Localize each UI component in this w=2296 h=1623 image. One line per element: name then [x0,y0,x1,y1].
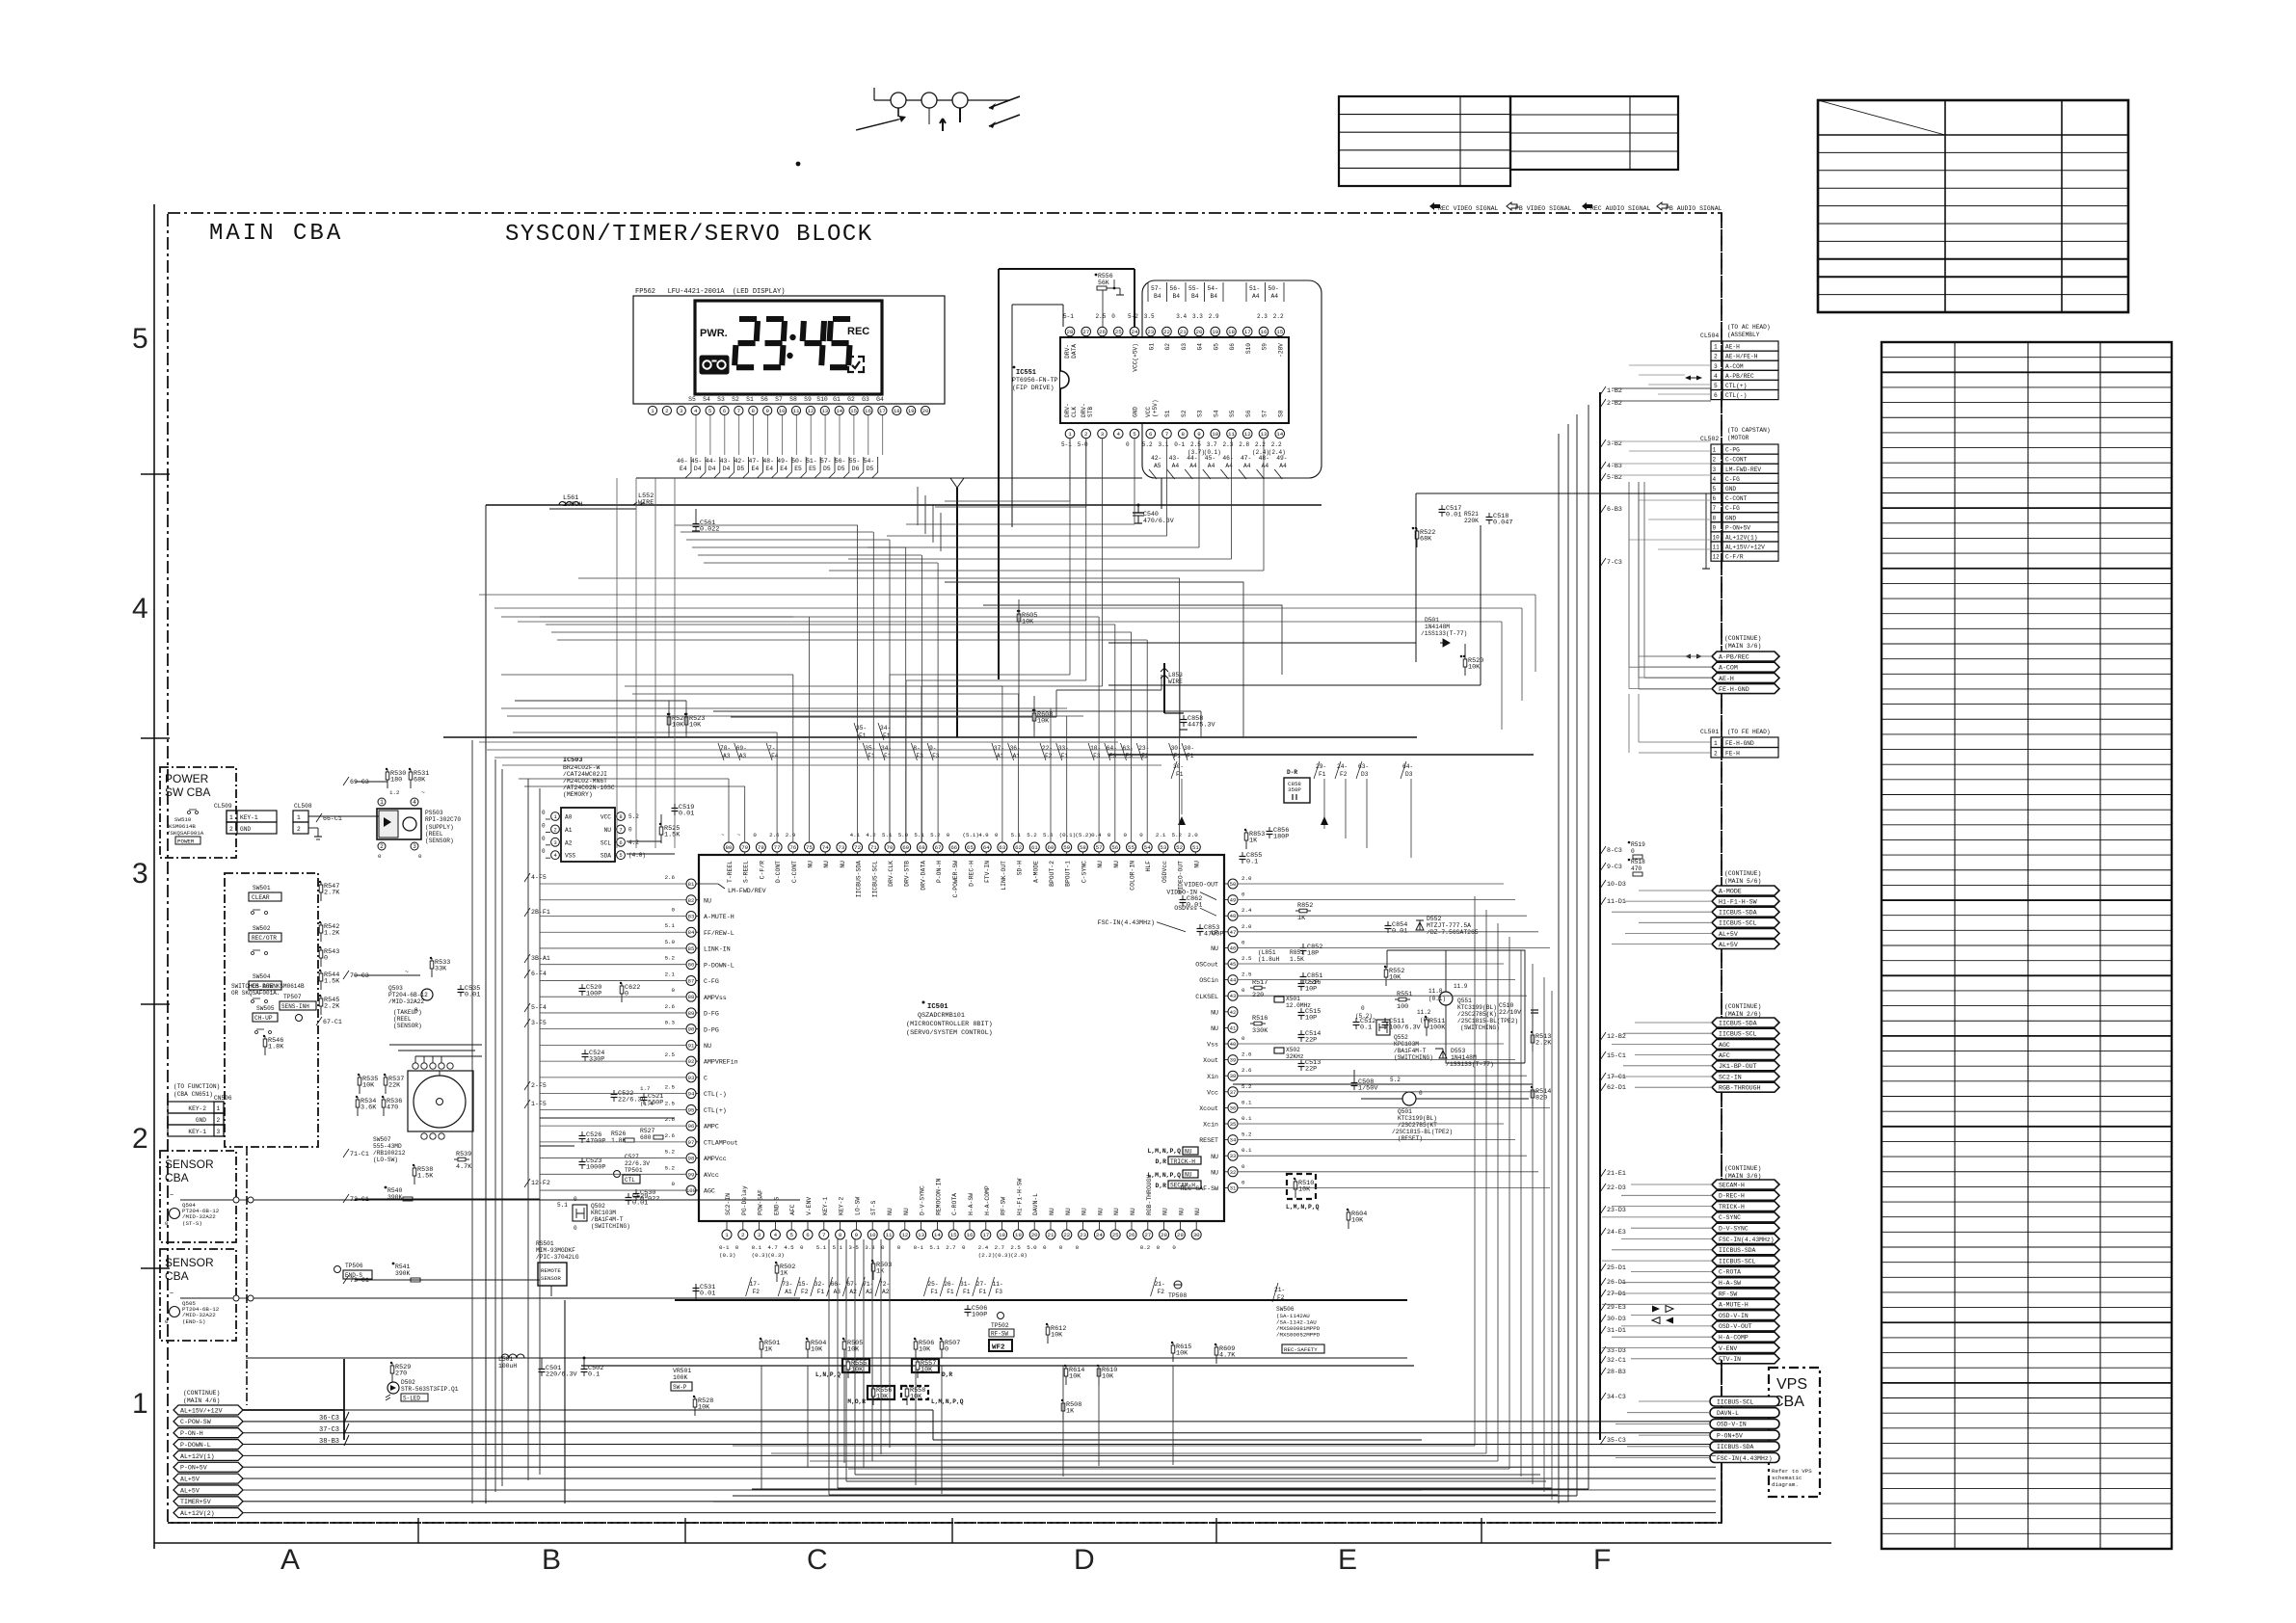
inductor L561 symbol [559,502,579,506]
tag stack main 5/6 [1712,886,1779,895]
wire memory bus [627,840,661,842]
svg-text:7: 7 [737,408,741,414]
svg-text:QSZADCRMB101: QSZADCRMB101 [918,1012,965,1020]
svg-text:80: 80 [726,844,733,851]
svg-text:7: 7 [822,1232,826,1238]
wire verticals mid column [917,487,919,525]
svg-text:DRV-: DRV- [1064,344,1071,359]
svg-text:55-: 55- [1188,285,1199,292]
flag 72-C1 [343,1194,349,1203]
svg-text:65: 65 [967,844,974,851]
svg-text:10K: 10K [1468,664,1481,672]
svg-text:T-REEL: T-REEL [727,861,734,883]
svg-text:25-: 25- [927,1281,938,1288]
svg-text:22P: 22P [1305,1037,1317,1045]
resistor R530 [387,769,388,788]
svg-text:8-: 8- [913,745,920,752]
svg-text:G3: G3 [1181,343,1188,351]
svg-text:G6: G6 [1229,343,1236,351]
svg-text:AMPVss: AMPVss [704,995,727,1001]
svg-text:F4: F4 [771,753,779,759]
svg-text:0: 0 [881,1244,885,1251]
svg-text:1.8K: 1.8K [611,1137,627,1144]
svg-text:X501: X501 [1286,996,1300,1002]
svg-text:1K: 1K [764,1346,773,1354]
svg-text:TP507: TP507 [283,994,302,1000]
svg-text:NU: NU [704,897,711,904]
svg-text:~: ~ [737,832,741,838]
svg-text:0.1: 0.1 [1241,1099,1252,1105]
svg-text:22/10V: 22/10V [1499,1009,1521,1016]
svg-text:G2: G2 [1164,343,1171,351]
svg-text:0: 0 [1241,1163,1245,1170]
svg-text:2.6: 2.6 [1241,1067,1252,1074]
audio tag stack [1712,652,1779,661]
svg-text:F1: F1 [1061,753,1069,759]
svg-text:NU: NU [1211,1154,1218,1160]
svg-text:RGB-THROUGH: RGB-THROUGH [1146,1175,1153,1215]
svg-text:62-D1: 62-D1 [1607,1084,1626,1091]
svg-text:F3: F3 [1093,753,1101,759]
svg-text:NU: NU [1130,1208,1136,1215]
svg-text:0.3: 0.3 [665,1020,676,1026]
connector CL502 [1711,444,1722,454]
svg-text:(MOTOR: (MOTOR [1727,435,1749,441]
svg-text:26: 26 [1129,1232,1135,1238]
svg-text:1.2K: 1.2K [324,930,340,938]
svg-text:11: 11 [1713,545,1721,551]
svg-text:C-CONT: C-CONT [1725,495,1748,502]
svg-text:R517: R517 [1252,979,1268,987]
svg-text:A-PB/REC: A-PB/REC [1725,373,1754,380]
svg-text:46-: 46- [1222,455,1233,462]
svg-text:/MID-32A22: /MID-32A22 [182,1213,216,1220]
svg-text:IICBUS-SDA: IICBUS-SDA [1719,1247,1756,1254]
svg-text:34-: 34- [881,745,892,752]
svg-text:SENS-INH: SENS-INH [281,1003,309,1010]
wires bus to CL502 [1612,441,1711,549]
svg-text:~: ~ [170,1192,174,1200]
svg-text:29-E3: 29-E3 [1607,1304,1626,1311]
svg-text:99: 99 [688,1171,695,1178]
svg-text:21: 21 [1180,329,1187,335]
IC501 top pins [724,842,734,852]
svg-text:0.1: 0.1 [1241,1115,1252,1122]
svg-text:DATA: DATA [1071,344,1078,359]
svg-text:100K: 100K [1429,1024,1446,1032]
svg-text:AVcc: AVcc [704,1172,719,1179]
svg-text:26-: 26- [944,1281,954,1288]
svg-text:470: 470 [387,1104,398,1112]
svg-text:5-1: 5-1 [1061,441,1072,448]
svg-text:1.5K: 1.5K [324,978,340,986]
svg-text:SW-P: SW-P [673,1384,687,1391]
svg-text:3.1: 3.1 [1159,441,1169,448]
svg-text:42-: 42- [1151,455,1161,462]
svg-text:0: 0 [1631,848,1635,855]
svg-text:S7: S7 [1262,410,1268,417]
svg-text:RF-SW: RF-SW [1001,1197,1007,1215]
capacitor C622 [621,983,623,1002]
svg-text:6: 6 [1149,431,1153,438]
resistor R520 [1464,656,1466,676]
svg-text:S1: S1 [1164,410,1171,417]
svg-text:2.5: 2.5 [1190,441,1201,448]
transistor Q502 digital [573,1205,587,1221]
svg-text:6: 6 [723,408,727,414]
svg-text:98: 98 [688,1156,695,1162]
svg-text:23-D3: 23-D3 [1607,1207,1626,1213]
svg-text:5-2: 5-2 [1128,313,1138,320]
svg-text:2.9: 2.9 [786,832,796,838]
svg-text:SW CBA: SW CBA [165,785,210,799]
svg-text:FSC-IN(4.43MHz): FSC-IN(4.43MHz) [1719,1237,1775,1243]
svg-text:10K: 10K [847,1346,860,1354]
svg-text:2: 2 [217,1117,221,1124]
svg-text:23: 23 [1080,1232,1086,1238]
svg-text:2: 2 [741,1232,745,1238]
svg-text:2: 2 [665,408,669,414]
svg-text:43: 43 [1230,993,1237,999]
svg-text:88: 88 [688,994,695,1000]
svg-text:R541: R541 [395,1264,411,1270]
svg-text:FSC-IN(4.43MHz): FSC-IN(4.43MHz) [1717,1455,1773,1462]
svg-text:0: 0 [1241,1179,1245,1185]
wire bundle display to IC501 [728,779,730,842]
svg-text:14: 14 [934,1232,941,1238]
svg-text:4.7: 4.7 [767,1244,778,1251]
svg-text:5.2: 5.2 [665,1164,676,1171]
mechanism icon [873,88,875,100]
svg-text:68: 68 [919,844,925,851]
capacitor C852 [1302,944,1304,948]
flag 15-C1 [1600,1051,1606,1060]
svg-text:9-C3: 9-C3 [1607,864,1622,870]
svg-text:(+5V): (+5V) [1152,399,1159,417]
wire thick y merge drop [956,488,958,737]
resistor R533 [431,958,433,977]
svg-text:1: 1 [380,799,384,806]
svg-text:C-ROTA: C-ROTA [1719,1269,1741,1276]
svg-text:A5: A5 [1154,463,1161,469]
svg-text:2: 2 [380,843,384,850]
svg-text:1: 1 [132,1388,148,1420]
svg-text:64: 64 [983,844,990,851]
svg-text:P-DOWN-L: P-DOWN-L [704,962,734,969]
svg-text:V-ENV: V-ENV [1719,1345,1737,1352]
svg-text:330P: 330P [589,1056,604,1064]
svg-text:POWER: POWER [165,772,209,785]
resistor R538 [414,1165,415,1184]
svg-text:SC2-IN: SC2-IN [1719,1074,1742,1080]
svg-text:0: 0 [962,1244,966,1251]
svg-text:1: 1 [1714,344,1718,351]
svg-text:G4: G4 [1197,343,1204,351]
flag 23-D3 [1600,1206,1606,1214]
svg-text:4: 4 [1117,431,1121,438]
left bus destination flags [524,873,530,882]
svg-text:15-: 15- [798,1281,809,1288]
resistor R543 [320,947,322,967]
wire verticals from IC551 [1069,439,1071,501]
transistor Q551 [1439,992,1453,1005]
svg-text:(MEMORY): (MEMORY) [563,791,593,798]
svg-text:A4: A4 [1271,293,1279,300]
svg-text:GND: GND [1725,486,1736,492]
svg-text:G1: G1 [833,396,841,403]
svg-text:/AT24C02N-10SC: /AT24C02N-10SC [563,785,615,791]
svg-text:0.01: 0.01 [1187,902,1202,910]
svg-text:BPOUT-1: BPOUT-1 [1065,861,1072,887]
svg-text:26: 26 [1099,329,1106,335]
svg-text:6: 6 [806,1232,810,1238]
capacitor C515 [1300,1008,1302,1013]
phototransistor Q505 [170,1307,180,1317]
svg-text:AFC: AFC [1719,1052,1730,1059]
capacitor C856b [1268,827,1270,832]
resistor R852 [1295,910,1311,912]
svg-text:6: 6 [619,839,622,846]
svg-text:10K: 10K [1176,1350,1188,1358]
svg-text:SWITCHES ARE KSM0614B: SWITCHES ARE KSM0614B [231,983,305,990]
svg-text:68K: 68K [1420,536,1432,544]
svg-text:(RESET): (RESET) [1398,1135,1423,1142]
svg-text:16: 16 [1261,329,1268,335]
capacitor C535 [460,985,462,990]
svg-text:6-B3: 6-B3 [1607,506,1622,513]
svg-text:47-: 47- [749,458,761,465]
svg-text:0: 0 [1241,891,1245,898]
capacitor C561 [695,519,697,524]
svg-text:D,R: D,R [942,1371,952,1378]
test point TP506 [334,1266,341,1273]
svg-text:59: 59 [1063,844,1070,851]
svg-text:S5: S5 [688,396,696,403]
svg-text:AGC: AGC [1719,1042,1730,1049]
svg-text:15: 15 [950,1232,957,1238]
flag 26-D1 [1600,1278,1606,1287]
svg-text:A3: A3 [834,1289,841,1295]
svg-text:57: 57 [1096,844,1103,851]
svg-text:D4: D4 [694,466,702,472]
svg-text:D-REC-H: D-REC-H [969,861,975,887]
svg-text:D4: D4 [723,466,731,472]
svg-text:(L851: (L851 [1258,949,1276,956]
svg-text:15-C1: 15-C1 [1607,1052,1626,1059]
svg-text:C-POW-SW: C-POW-SW [180,1419,211,1425]
svg-text:E4: E4 [752,466,760,472]
svg-text:CTL: CTL [625,1177,635,1184]
resistor R529 [391,1363,393,1382]
svg-text:8: 8 [1182,431,1186,438]
svg-text:D,R: D,R [1155,1158,1166,1165]
svg-text:SW501: SW501 [253,885,271,891]
svg-text:RESET: RESET [1199,1137,1218,1144]
svg-text:50-: 50- [1268,285,1279,292]
svg-text:KEY-1: KEY-1 [188,1129,206,1135]
wire reset net [1233,1083,1533,1085]
svg-text:0: 0 [735,1244,739,1251]
svg-text:F2: F2 [801,1289,809,1295]
svg-text:0: 0 [542,836,546,842]
svg-text:D3: D3 [1405,771,1413,778]
svg-text:10P: 10P [1305,1015,1317,1023]
svg-text:A2: A2 [849,1289,857,1295]
svg-text:A-PB/REC: A-PB/REC [1719,653,1749,660]
svg-text:4: 4 [1714,373,1718,380]
capacitor C508 [1353,1078,1355,1083]
svg-text:56-: 56- [835,458,846,465]
svg-text:OSD-V-IN: OSD-V-IN [1719,1313,1749,1319]
svg-text:78: 78 [758,844,764,851]
svg-text:D5: D5 [838,466,845,472]
flag 70-C3 [343,971,349,979]
flag 33-D3 [1600,1346,1606,1355]
svg-text:820: 820 [1535,1095,1547,1103]
svg-text:H1-F1-H-SW: H1-F1-H-SW [1719,898,1757,905]
svg-text:0: 0 [897,1244,901,1251]
svg-text:VIDEO-OUT: VIDEO-OUT [1184,882,1218,889]
svg-text:CLK: CLK [1071,407,1078,417]
resistor R537 [385,1075,387,1094]
svg-text:19: 19 [1015,1232,1022,1238]
svg-text:0: 0 [574,1225,577,1232]
svg-text:SW510: SW510 [174,816,192,823]
svg-text:B4: B4 [1211,293,1218,300]
svg-text:L,M,N,P,Q: L,M,N,P,Q [931,1398,964,1405]
flag 8-C3 [1600,846,1606,855]
svg-text:C: C [807,1544,828,1576]
transistor Q501 [1402,1092,1416,1105]
svg-text:F2: F2 [1158,1289,1165,1295]
svg-text:A4: A4 [1262,463,1269,469]
svg-text:2B-F1: 2B-F1 [531,909,550,916]
capacitor C529 [627,1193,629,1198]
svg-text:37-C3: 37-C3 [319,1426,339,1434]
svg-text:REMOTE: REMOTE [541,1267,561,1274]
wire IC551 to IC501 drv [1069,439,1071,675]
svg-text:34-: 34- [880,725,891,732]
svg-text:L853: L853 [1168,672,1183,678]
svg-text:4.1: 4.1 [850,832,861,838]
tag stack main 3/6 [1712,1180,1779,1189]
phototransistor Q503 [421,989,433,1000]
svg-text:8: 8 [1713,515,1717,521]
svg-text:(MAIN 5/6): (MAIN 5/6) [1724,878,1761,885]
svg-text:VR501: VR501 [673,1368,691,1374]
svg-text:2.1: 2.1 [1156,832,1166,838]
svg-text:DRV-CLK: DRV-CLK [888,861,894,887]
svg-text:0: 0 [165,1318,169,1325]
flag 34-C3 [1600,1393,1606,1401]
svg-text:D-V-SYNC: D-V-SYNC [1719,1226,1749,1233]
svg-text:AE-H/FE-H: AE-H/FE-H [1725,354,1758,360]
capacitor C506 [967,1305,969,1310]
svg-text:2: 2 [229,826,233,833]
svg-text:0: 0 [324,955,328,963]
svg-text:10K: 10K [1351,1217,1364,1225]
svg-text:2.4: 2.4 [1241,907,1252,914]
svg-text:11.2: 11.2 [1417,1009,1431,1016]
svg-text:33-: 33- [1058,745,1069,752]
svg-text:30: 30 [1193,1232,1200,1238]
svg-text:OSDVcc: OSDVcc [1161,861,1168,883]
resistor R506 [915,1339,917,1358]
svg-text:1: 1 [297,814,301,821]
svg-text:S9: S9 [804,396,812,403]
svg-text:0: 0 [414,1006,418,1013]
svg-text:2.6: 2.6 [665,1003,676,1010]
svg-text:0: 0 [418,853,422,860]
svg-text:2.5: 2.5 [1096,313,1107,320]
svg-text:AMPC: AMPC [704,1124,719,1131]
svg-text:OSCin: OSCin [1199,977,1218,984]
capacitor C854 [1387,921,1389,926]
svg-text:70-C3: 70-C3 [350,972,369,979]
svg-text:16: 16 [865,408,871,414]
IC551 bus loop [1142,280,1322,478]
svg-text:10K: 10K [1389,974,1402,982]
svg-text:F2: F2 [1045,753,1053,759]
svg-text:10K: 10K [1102,1373,1114,1381]
svg-text:0: 0 [1126,441,1130,448]
wire power rail [246,1357,1407,1359]
svg-text:/2SC1815-BL(TPE2): /2SC1815-BL(TPE2) [1392,1129,1453,1135]
svg-text:7-C3: 7-C3 [1607,559,1622,566]
svg-text:20: 20 [1031,1232,1038,1238]
svg-text:220K: 220K [1464,518,1479,524]
svg-text:F1: F1 [947,1289,954,1295]
resistor R517 [1250,987,1266,989]
test point TP508 [1174,1281,1182,1289]
svg-text:AE-H: AE-H [1725,344,1740,351]
svg-text:13: 13 [821,408,828,414]
svg-text:FTV-IN: FTV-IN [984,861,991,883]
resistor R531 [410,769,412,788]
svg-text:(0.3): (0.3) [719,1252,735,1259]
svg-text:25: 25 [1115,329,1122,335]
svg-text:17-C1: 17-C1 [1607,1074,1626,1080]
svg-text:100K: 100K [673,1374,688,1381]
svg-text:/CAT24WC02JI: /CAT24WC02JI [563,771,607,778]
crystal X502 [1274,1048,1284,1053]
wire thick branch [343,1359,345,1440]
svg-text:0: 0 [753,832,757,838]
optocoupler PS503 [377,809,421,839]
svg-text:PB VIDEO SIGNAL: PB VIDEO SIGNAL [1515,205,1572,212]
svg-text:12: 12 [807,408,814,414]
svg-text:S9: S9 [1262,343,1268,351]
svg-text:DRV-DATA: DRV-DATA [920,861,926,891]
capacitor C519 [674,804,676,809]
svg-text:CL504: CL504 [1700,333,1719,339]
svg-text:KTC3199(BL): KTC3199(BL) [1457,1004,1497,1011]
svg-text:RPI-302C70: RPI-302C70 [425,816,461,823]
wire mid column turns [829,1494,1558,1496]
svg-text:D: D [1074,1544,1095,1576]
svg-text:Refer to VPS: Refer to VPS [1772,1468,1812,1475]
connector CL501 [1711,737,1722,748]
connector CN506 [168,1102,224,1113]
svg-text:3.8: 3.8 [865,1244,875,1251]
bold resistor R557 [912,1359,939,1372]
VPS tag stack [1710,1397,1779,1406]
svg-text:(MAIN 4/6): (MAIN 4/6) [183,1397,220,1404]
svg-text:5: 5 [132,323,148,355]
capacitor C862 [1182,895,1184,900]
svg-text:10: 10 [779,408,786,414]
resistor R608 [1033,710,1035,730]
